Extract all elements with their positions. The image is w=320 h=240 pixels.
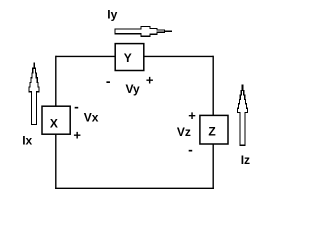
svg-text:+: + — [188, 108, 196, 123]
svg-text:-: - — [106, 73, 111, 89]
wire top-left segment — [56, 55, 115, 57]
wire left lower segment — [55, 134, 57, 189]
wire top-right segment — [144, 55, 213, 57]
element Z box — [200, 115, 228, 144]
svg-text:Z: Z — [208, 124, 215, 138]
svg-text:+: + — [146, 73, 154, 88]
current arrow Iz — [237, 85, 247, 145]
svg-text:Ix: Ix — [22, 133, 32, 147]
wire right lower segment — [212, 144, 214, 189]
element X box — [42, 106, 70, 134]
svg-text:+: + — [73, 127, 81, 142]
svg-text:X: X — [50, 117, 58, 131]
svg-text:Vx: Vx — [84, 110, 99, 124]
current arrow Ix — [29, 63, 39, 124]
wire left upper segment — [55, 56, 57, 106]
element Y box — [115, 44, 144, 71]
wire bottom segment — [55, 187, 214, 189]
svg-text:Vy: Vy — [126, 82, 141, 96]
svg-text:Y: Y — [124, 51, 132, 65]
svg-text:Vz: Vz — [177, 125, 191, 139]
svg-text:Iy: Iy — [107, 7, 117, 21]
wire right upper segment — [212, 56, 214, 116]
svg-text:-: - — [188, 142, 193, 158]
svg-text:-: - — [74, 99, 79, 115]
svg-text:Iz: Iz — [241, 153, 250, 167]
current arrow Iy — [115, 26, 172, 36]
